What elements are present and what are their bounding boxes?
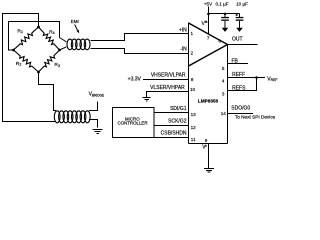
svg-text:13: 13 xyxy=(191,112,197,117)
svg-text:14: 14 xyxy=(221,111,227,116)
svg-text:CONTROLLER: CONTROLLER xyxy=(117,121,147,126)
svg-text:+3.3V: +3.3V xyxy=(128,77,142,83)
svg-text:To Next SPI Device: To Next SPI Device xyxy=(235,115,276,120)
svg-text:2: 2 xyxy=(191,51,194,56)
svg-text:0.1 µF: 0.1 µF xyxy=(215,1,228,6)
svg-text:12: 12 xyxy=(191,125,197,130)
svg-text:3: 3 xyxy=(222,91,225,96)
svg-text:9: 9 xyxy=(205,138,208,143)
svg-text:11: 11 xyxy=(191,137,196,142)
svg-text:5: 5 xyxy=(222,66,225,71)
svg-text:+IN: +IN xyxy=(179,27,187,33)
svg-text:FB: FB xyxy=(232,59,239,65)
svg-text:10: 10 xyxy=(190,87,196,92)
svg-text:CSB/SHDN: CSB/SHDN xyxy=(161,131,187,137)
svg-text:7: 7 xyxy=(207,35,210,40)
svg-text:SCK/G2: SCK/G2 xyxy=(168,118,187,124)
svg-text:VHSER/VLPAR: VHSER/VLPAR xyxy=(151,73,186,79)
svg-text:VREF: VREF xyxy=(267,76,277,82)
svg-text:1: 1 xyxy=(191,31,194,36)
svg-text:REFF: REFF xyxy=(232,72,245,78)
svg-text:VLSER/VHPAR: VLSER/VHPAR xyxy=(150,85,185,91)
svg-text:REFS: REFS xyxy=(232,85,246,91)
svg-text:LMP8358: LMP8358 xyxy=(198,99,219,104)
svg-text:8: 8 xyxy=(191,77,194,82)
svg-text:OUT: OUT xyxy=(232,37,243,43)
svg-text:+5V: +5V xyxy=(204,2,213,7)
svg-text:4: 4 xyxy=(222,78,225,83)
svg-text:SDO/G0: SDO/G0 xyxy=(231,105,250,111)
svg-text:-IN: -IN xyxy=(180,47,187,53)
svg-text:EMI: EMI xyxy=(71,19,79,24)
svg-text:SDI/G1: SDI/G1 xyxy=(170,106,187,112)
svg-text:VBRIDGE: VBRIDGE xyxy=(89,92,105,98)
svg-text:6: 6 xyxy=(218,38,221,43)
svg-text:10 µF: 10 µF xyxy=(236,1,248,6)
